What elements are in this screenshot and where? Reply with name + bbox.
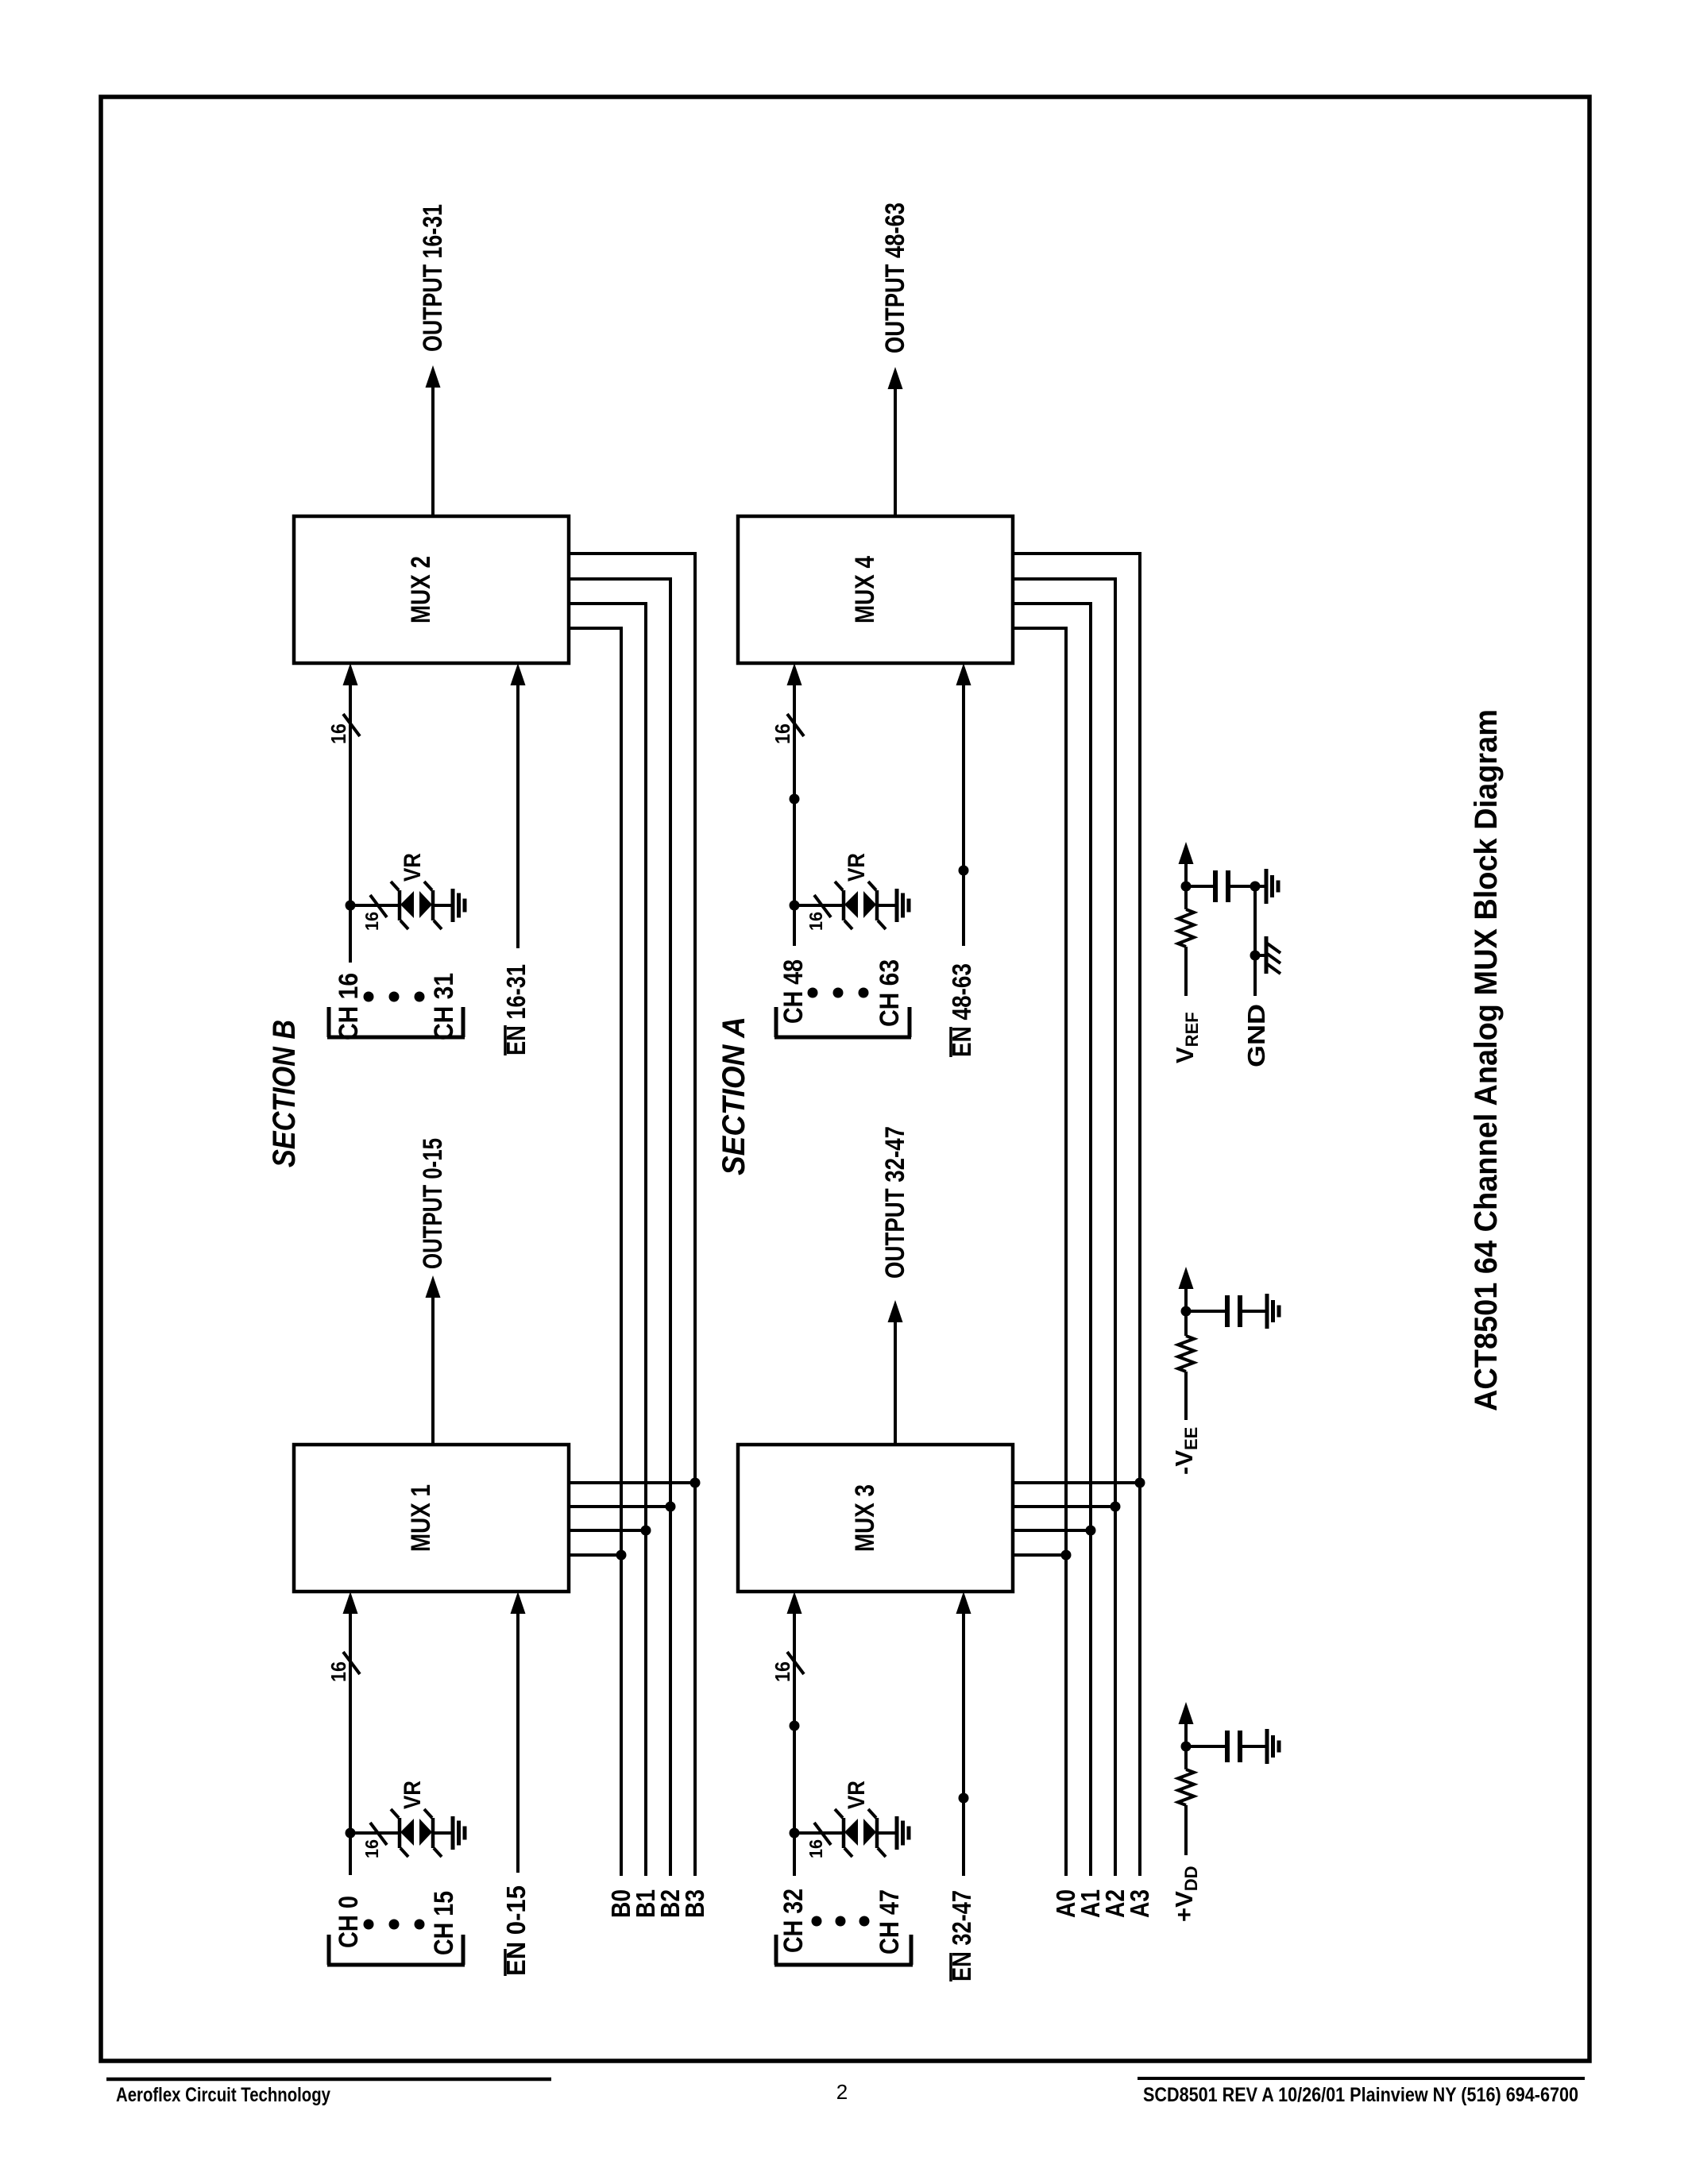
wire A2 [1013, 579, 1115, 1876]
+VDD bypass capacitor [1186, 1745, 1227, 1748]
svg-text:CH 0: CH 0 [334, 1896, 364, 1948]
VR network MUX4: junction node on channel bus [790, 901, 800, 911]
VR network MUX3: bidirectional zener (VR) [842, 1818, 846, 1848]
page frame border [101, 97, 1590, 2061]
svg-text:16: 16 [805, 912, 826, 931]
VREF capacitor to ground [1228, 885, 1266, 888]
EN 16-31 overline [504, 1025, 507, 1055]
bracket CH0-15 [327, 1963, 465, 1967]
svg-text:ACT8501 64 Channel Analog MUX: ACT8501 64 Channel Analog MUX Block Diag… [1469, 709, 1504, 1411]
svg-text:CH 48: CH 48 [778, 959, 809, 1024]
svg-text:OUTPUT 48-63: OUTPUT 48-63 [880, 203, 910, 353]
MUX1 input: slash "16" bus width mark [343, 1652, 360, 1674]
VR network MUX4: wire to ground [877, 904, 897, 907]
node GND/cap [1250, 882, 1261, 892]
svg-text:+VDD: +VDD [1170, 1866, 1201, 1922]
VR network MUX3: earth ground [895, 1816, 899, 1850]
EN 0-15 overline [504, 1949, 507, 1976]
MUX2 input: 16-wide channel bus wire + arrow [349, 684, 352, 963]
VR network MUX4: wire down to suppressor [794, 904, 844, 907]
VREF bypass capacitor [1186, 885, 1215, 888]
svg-text:CH 31: CH 31 [429, 973, 459, 1040]
footer left rule [106, 2078, 551, 2082]
MUX 4 block [738, 516, 1013, 663]
node on MUX3 bus [790, 1721, 800, 1731]
VR network MUX1: wire down to suppressor [350, 1831, 400, 1835]
MUX1 output wire + arrow [431, 1298, 435, 1445]
VR network MUX2: wire to ground [433, 904, 453, 907]
svg-text:16: 16 [771, 723, 794, 744]
MUX4 input: slash "16" bus width mark [787, 714, 804, 736]
svg-text:VR: VR [400, 1781, 426, 1809]
MUX3 A3 stub + junction [1013, 1481, 1140, 1484]
MUX 2 block [294, 516, 569, 663]
svg-text:MUX 4: MUX 4 [850, 556, 880, 623]
+VDD supply wire + arrow [1184, 1805, 1188, 1855]
wire B0 [569, 628, 621, 1876]
bracket CH16-31 [327, 1036, 465, 1040]
VR network MUX4: bus-width slash "16" [814, 895, 831, 917]
svg-text:16: 16 [361, 912, 382, 931]
svg-text:MUX 1: MUX 1 [406, 1484, 436, 1552]
svg-text:16: 16 [326, 1661, 350, 1682]
VR network MUX2: junction node on channel bus [346, 901, 356, 911]
svg-text:SECTION A: SECTION A [717, 1017, 751, 1175]
MUX3 input: 16-wide channel bus wire + arrow [793, 1612, 796, 1876]
MUX3 output wire + arrow [894, 1322, 897, 1445]
dots CH32..CH47 [812, 1916, 822, 1927]
VR network MUX1: junction node on channel bus [346, 1828, 356, 1839]
MUX3 input: slash "16" bus width mark [787, 1652, 804, 1674]
svg-text:A3: A3 [1125, 1889, 1154, 1918]
svg-text:VR: VR [844, 853, 870, 882]
svg-text:B3: B3 [680, 1889, 709, 1918]
MUX1 input: 16-wide channel bus wire + arrow [349, 1612, 352, 1875]
VR network MUX2: wire down to suppressor [350, 904, 400, 907]
svg-text:OUTPUT 16-31: OUTPUT 16-31 [418, 204, 448, 352]
node on MUX4 bus [790, 794, 800, 805]
VREF wire + arrow [1184, 947, 1188, 996]
MUX2 input: slash "16" bus width mark [343, 714, 360, 736]
+VDD capacitor ground [1240, 1745, 1267, 1748]
VR network MUX4: earth ground [895, 889, 899, 922]
MUX1 B1 stub + junction [569, 1529, 646, 1532]
EN 0-15 wire + arrow [516, 1612, 520, 1873]
MUX1 B0 stub + junction [569, 1553, 621, 1557]
VR network MUX3: bus-width slash "16" [814, 1823, 831, 1845]
MUX4 output wire + arrow [894, 389, 897, 516]
VR network MUX4: bidirectional zener (VR) [842, 890, 846, 920]
node VREF/cap [1181, 882, 1192, 892]
GND wire [1253, 886, 1257, 996]
VR network MUX2: bus-width slash "16" [370, 895, 387, 917]
svg-text:-VEE: -VEE [1170, 1427, 1201, 1475]
wire B3 [569, 554, 695, 1876]
node chassis [1250, 951, 1261, 961]
wire A1 [1013, 604, 1091, 1876]
node on EN 48-63 wire [959, 866, 969, 876]
svg-text:CH 15: CH 15 [429, 1891, 459, 1955]
VR network MUX1: bus-width slash "16" [370, 1823, 387, 1845]
MUX2 output wire + arrow [431, 388, 435, 516]
VR network MUX3: wire to ground [877, 1831, 897, 1835]
svg-text:16: 16 [361, 1839, 382, 1858]
svg-text:VREF: VREF [1171, 1012, 1202, 1063]
MUX3 A1 stub + junction [1013, 1529, 1091, 1532]
chassis ground symbol [1255, 954, 1266, 957]
VR network MUX3: wire down to suppressor [794, 1831, 844, 1835]
svg-text:MUX 2: MUX 2 [406, 556, 436, 623]
bracket CH48-63 [774, 1036, 911, 1040]
MUX3 A2 stub + junction [1013, 1505, 1115, 1508]
node on +VDD [1181, 1742, 1192, 1752]
VR network MUX3: junction node on channel bus [790, 1828, 800, 1839]
svg-text:SCD8501 REV A 10/26/01 P: SCD8501 REV A 10/26/01 Plainview NY (516… [1143, 2084, 1578, 2106]
VR network MUX2: earth ground [451, 889, 455, 922]
-VEE supply wire + arrow [1184, 1372, 1188, 1420]
svg-text:OUTPUT 32-47: OUTPUT 32-47 [880, 1126, 910, 1279]
-VEE bypass capacitor [1186, 1310, 1227, 1313]
svg-text:SECTION B: SECTION B [267, 1020, 302, 1167]
svg-text:Aeroflex Circuit Technology: Aeroflex Circuit Technology [116, 2084, 330, 2106]
EN 48-63 wire + arrow [962, 684, 965, 946]
node on EN 32-47 wire [959, 1793, 969, 1804]
wire B1 [569, 604, 646, 1876]
dots CH48..CH63 [808, 988, 818, 998]
node on -VEE [1181, 1306, 1192, 1317]
VR network MUX1: bidirectional zener (VR) [398, 1818, 402, 1848]
svg-text:CH 32: CH 32 [778, 1889, 809, 1953]
footer right rule [1138, 2077, 1585, 2080]
svg-text:16: 16 [326, 723, 350, 744]
wire A0 [1013, 628, 1066, 1876]
svg-text:OUTPUT 0-15: OUTPUT 0-15 [418, 1138, 448, 1269]
wire B2 [569, 579, 670, 1876]
MUX1 B3 stub + junction [569, 1481, 695, 1484]
MUX 1 block [294, 1445, 569, 1592]
dots CH0..CH15 [364, 1920, 374, 1930]
wire A3 [1013, 554, 1140, 1876]
VR network MUX1: wire to ground [433, 1831, 453, 1835]
MUX1 B2 stub + junction [569, 1505, 670, 1508]
EN 16-31 wire + arrow [516, 684, 520, 948]
MUX 3 block [738, 1445, 1013, 1592]
svg-text:CH 63: CH 63 [875, 959, 905, 1027]
svg-text:MUX 3: MUX 3 [850, 1484, 880, 1552]
EN 48-63 overline [949, 1027, 952, 1057]
-VEE capacitor ground [1240, 1310, 1267, 1313]
svg-text:16: 16 [805, 1839, 826, 1858]
EN 32-47 wire + arrow [962, 1612, 965, 1876]
svg-text:CH 47: CH 47 [875, 1889, 905, 1954]
dots CH16..CH31 [364, 992, 374, 1002]
VR network MUX1: earth ground [451, 1816, 455, 1850]
svg-text:2: 2 [836, 2080, 848, 2104]
EN 32-47 overline [949, 1953, 952, 1981]
VR network MUX2: bidirectional zener (VR) [398, 890, 402, 920]
bracket CH32-47 [774, 1963, 913, 1967]
svg-text:VR: VR [844, 1781, 870, 1809]
MUX3 A0 stub + junction [1013, 1553, 1066, 1557]
svg-text:CH 16: CH 16 [334, 973, 364, 1040]
svg-text:GND: GND [1242, 1004, 1270, 1067]
svg-text:16: 16 [771, 1661, 794, 1682]
svg-text:VR: VR [400, 853, 426, 882]
MUX4 input: 16-wide channel bus wire + arrow [793, 684, 796, 946]
